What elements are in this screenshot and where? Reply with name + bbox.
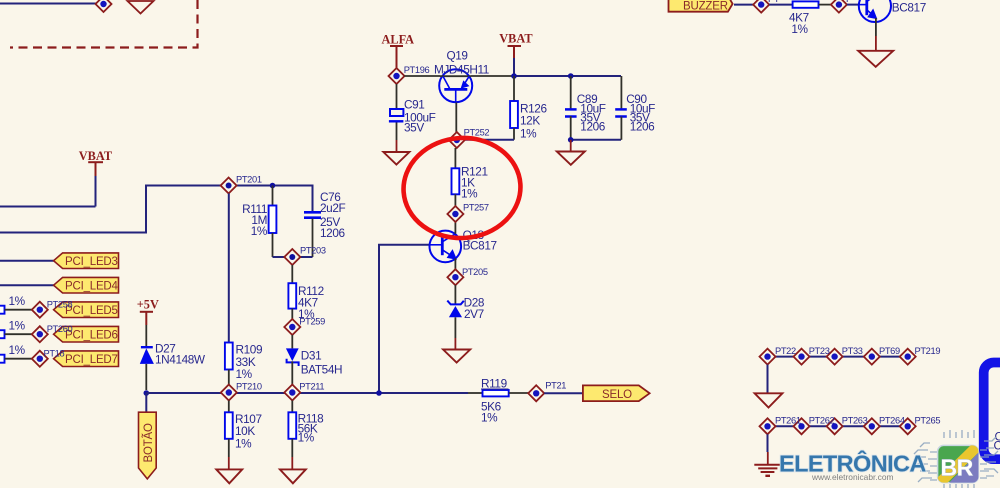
test point buzzer-right	[831, 0, 852, 13]
logo BR square	[933, 445, 980, 488]
port PCI_LED5	[54, 302, 119, 318]
wire test point row 1	[768, 356, 908, 358]
labels test point row 1	[775, 346, 940, 356]
labels test point row 2	[775, 416, 940, 426]
capacitor C76	[304, 190, 345, 257]
port SELO	[583, 385, 650, 401]
svg-text:1%: 1%	[251, 224, 268, 238]
port PCI_LED7	[54, 351, 119, 367]
capacitor C90	[615, 76, 655, 140]
svg-text:1206: 1206	[630, 120, 655, 134]
svg-text:PT23: PT23	[809, 346, 830, 356]
junction Q18 base net	[376, 390, 382, 396]
resistor 4K7	[769, 1, 831, 36]
test point PT196	[389, 65, 430, 84]
svg-text:Q19: Q19	[447, 49, 468, 63]
junction C89 bottom	[568, 137, 574, 143]
svg-text:C91: C91	[404, 98, 424, 112]
svg-text:1%: 1%	[235, 437, 252, 451]
resistor R126	[510, 76, 547, 141]
junction R111 top	[270, 183, 276, 189]
wire top-left net	[0, 3, 96, 5]
svg-text:C: C	[994, 439, 1000, 453]
svg-text:PCI_LED7: PCI_LED7	[65, 354, 118, 366]
svg-text:1%: 1%	[9, 294, 26, 308]
ground C91	[383, 152, 409, 165]
svg-text:PT263: PT263	[842, 416, 868, 426]
wire LED5	[5, 309, 33, 311]
test point PT252	[449, 128, 490, 149]
svg-text:PT260: PT260	[47, 324, 73, 334]
wire test point row 2	[768, 425, 908, 427]
svg-text:VBAT: VBAT	[499, 32, 533, 46]
resistor R118	[288, 401, 324, 470]
svg-text:BOTÃO: BOTÃO	[142, 423, 155, 463]
svg-text:PT257: PT257	[463, 203, 489, 213]
test point PT211	[284, 382, 324, 401]
svg-text:VBAT: VBAT	[79, 149, 113, 163]
test point PT33	[827, 349, 843, 365]
svg-text:PT264: PT264	[879, 416, 905, 426]
wire PT22 to ground	[767, 365, 769, 394]
svg-text:+5V: +5V	[137, 297, 159, 311]
junction botao	[144, 390, 150, 396]
svg-text:PT69: PT69	[879, 346, 900, 356]
test point PT219	[900, 349, 916, 365]
ground R107	[216, 469, 242, 483]
svg-text:1%: 1%	[9, 319, 26, 333]
svg-text:PT18: PT18	[44, 349, 65, 359]
test point PT260	[32, 324, 73, 342]
svg-text:R119: R119	[481, 377, 507, 391]
wire LED4	[0, 284, 54, 286]
svg-text:www.eletronicabr.com: www.eletronicabr.com	[811, 472, 893, 482]
resistor stub row5	[0, 294, 26, 314]
port PCI_LED3	[54, 253, 119, 269]
port PCI_LED6	[54, 326, 119, 342]
diode D27	[140, 325, 206, 390]
svg-text:PT196: PT196	[404, 65, 430, 75]
svg-text:PCI_LED6: PCI_LED6	[65, 330, 118, 342]
ground D28	[443, 350, 470, 363]
wire PT203 to R112	[291, 265, 293, 283]
svg-text:PT210: PT210	[236, 382, 262, 392]
logo chip traces	[914, 430, 998, 488]
svg-text:SELO: SELO	[602, 389, 632, 401]
svg-text:2V7: 2V7	[464, 307, 484, 321]
resistor R109	[225, 343, 262, 386]
port BUZZER	[669, 0, 733, 12]
test point PT264	[864, 418, 880, 434]
resistor R121	[452, 148, 488, 206]
wire PT21 to SELO	[544, 392, 583, 394]
power port +5V	[137, 297, 159, 325]
svg-text:PT21: PT21	[545, 381, 566, 391]
svg-text:1N4148W: 1N4148W	[155, 353, 206, 367]
ground R118	[280, 469, 306, 483]
test point PT262	[794, 418, 810, 434]
svg-text:PT: PT	[768, 0, 780, 4]
svg-text:1%: 1%	[791, 22, 808, 36]
test point PT21	[528, 381, 566, 402]
blue border box	[984, 363, 1000, 460]
ground C89	[557, 140, 585, 165]
test point PT265	[900, 418, 916, 434]
svg-text:PT205: PT205	[462, 267, 488, 277]
wire VBAT to left edge	[0, 206, 96, 208]
svg-text:PT22: PT22	[775, 346, 796, 356]
transistor Q18	[429, 222, 497, 270]
svg-text:PT258: PT258	[47, 300, 73, 310]
svg-text:1%: 1%	[298, 431, 315, 445]
svg-text:BC817: BC817	[892, 1, 926, 15]
svg-text:35V: 35V	[404, 121, 424, 135]
test point PT259	[284, 317, 325, 336]
wire LED3	[0, 260, 54, 262]
svg-text:BC817: BC817	[463, 239, 497, 253]
transistor BC817 (top right)	[847, 0, 926, 51]
svg-text:PT261: PT261	[775, 416, 801, 426]
svg-text:1206: 1206	[580, 120, 605, 134]
svg-text:ALFA: ALFA	[382, 32, 415, 46]
test point PT69	[864, 349, 880, 365]
test point PT205	[447, 267, 487, 285]
resistor R119	[468, 377, 528, 425]
test point PT263	[827, 418, 843, 434]
wire C89/C90 bottom	[571, 139, 621, 141]
ground PT22	[755, 393, 783, 407]
power port VBAT (top)	[499, 32, 533, 76]
wire BUZZER to PT	[734, 4, 754, 6]
junction VBAT node	[511, 73, 517, 79]
wire PT261 to earth	[767, 434, 769, 464]
test point PT210	[221, 382, 262, 401]
wire LED7	[5, 358, 33, 360]
test point PT261	[760, 418, 776, 434]
svg-text:2u2F: 2u2F	[320, 201, 345, 215]
test point PT23	[794, 349, 810, 365]
wire Q19 base to PT252	[455, 103, 457, 134]
svg-text:D31: D31	[301, 349, 321, 363]
power port VBAT (left)	[79, 149, 113, 176]
resistor stub row6	[0, 319, 26, 339]
earth ground PT261	[754, 465, 780, 476]
wire Q18 base net	[379, 245, 429, 393]
wire R111/C76 bottom to PT203	[273, 256, 313, 258]
svg-text:BAT54H: BAT54H	[301, 363, 342, 377]
test point PT22	[760, 349, 776, 365]
test point PT257	[447, 203, 488, 223]
wire PT196 to Q19	[405, 75, 441, 77]
svg-text:P: P	[846, 0, 852, 4]
svg-text:12K: 12K	[520, 114, 540, 128]
node PT201	[221, 175, 262, 194]
power port ALFA	[382, 32, 415, 68]
ground top-left	[128, 1, 154, 14]
svg-text:PT211: PT211	[299, 382, 324, 392]
svg-text:PCI_LED4: PCI_LED4	[65, 281, 119, 293]
svg-text:BR: BR	[941, 455, 974, 481]
svg-text:PT262: PT262	[809, 416, 835, 426]
svg-text:1%: 1%	[481, 410, 498, 424]
svg-text:1%: 1%	[461, 187, 478, 201]
svg-text:MJD45H11: MJD45H11	[434, 63, 489, 77]
svg-text:PT33: PT33	[842, 346, 863, 356]
svg-text:1206: 1206	[320, 226, 345, 240]
port PCI_LED4	[54, 277, 119, 293]
capacitor C89	[565, 73, 606, 140]
resistor R112	[288, 283, 323, 321]
svg-text:PT219: PT219	[915, 346, 941, 356]
wire PT201 to R109	[228, 194, 230, 343]
ground BC817	[858, 51, 893, 67]
svg-text:BUZZER: BUZZER	[683, 0, 728, 12]
wire Q19 to VBAT node	[471, 75, 514, 77]
wire VBAT stub	[95, 176, 97, 207]
resistor stub row7	[0, 343, 26, 363]
red highlight ellipse	[400, 134, 524, 242]
svg-text:1%: 1%	[9, 343, 26, 357]
test point top-left	[96, 0, 112, 12]
resistor R111	[242, 186, 276, 258]
test point PT18	[32, 349, 65, 367]
dashed region border	[10, 0, 198, 48]
resistor R107	[225, 401, 262, 470]
node PT203	[284, 246, 326, 266]
wire R126 to PT252	[464, 139, 514, 141]
svg-text:PT259: PT259	[299, 317, 325, 327]
transistor Q19	[434, 49, 489, 103]
svg-text:1%: 1%	[236, 367, 253, 381]
test point PT258	[32, 300, 73, 318]
svg-text:1%: 1%	[520, 127, 537, 141]
svg-text:PT201: PT201	[236, 175, 262, 185]
svg-text:PT265: PT265	[915, 416, 941, 426]
wire net to PT201	[0, 186, 313, 233]
wire LED6	[5, 333, 33, 335]
svg-text:PCI_LED3: PCI_LED3	[65, 256, 118, 268]
zener diode D28	[447, 285, 485, 349]
port BOTAO	[139, 412, 157, 479]
wire botao	[145, 393, 147, 413]
diode D31	[286, 335, 342, 385]
clipped text inside box	[994, 430, 1000, 453]
wire main net SELO	[146, 392, 468, 394]
svg-text:PT203: PT203	[300, 246, 326, 256]
test point buzzer-left	[753, 0, 780, 13]
capacitor C91	[389, 84, 436, 152]
svg-text:PCI_LED5: PCI_LED5	[65, 305, 118, 317]
